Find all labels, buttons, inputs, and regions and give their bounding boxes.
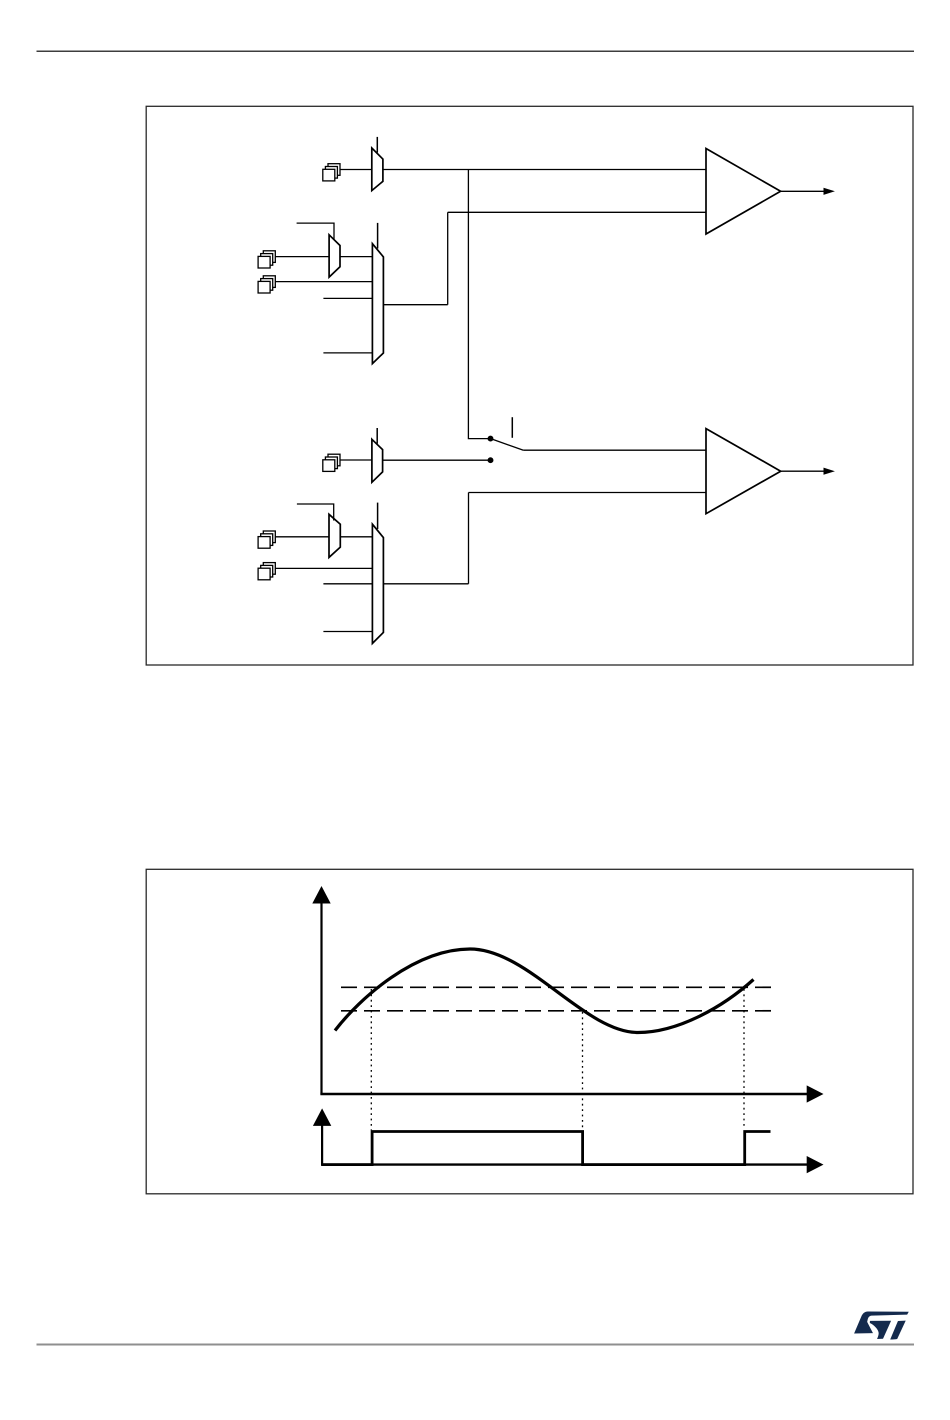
node B (switch top contact dot) bbox=[488, 436, 493, 441]
wire P5 to mux M4a bbox=[275, 536, 329, 538]
wire M1 to comparator COMP1 noninverting input bbox=[383, 169, 706, 171]
wire vertical mux M4 output to COMP2 inverting input bbox=[468, 493, 470, 584]
switch S1 control stub bbox=[511, 417, 513, 438]
dotted guide line 3 bbox=[743, 989, 745, 1129]
wire M2 output bbox=[383, 304, 447, 306]
node C (switch bottom contact dot) bbox=[488, 458, 493, 463]
ST logo bbox=[854, 1311, 909, 1339]
switch S1 blade (window mode) bbox=[492, 439, 523, 450]
header rule bbox=[37, 50, 915, 52]
wire M2 input stub 1 bbox=[323, 297, 372, 299]
I/O pad P2 bbox=[258, 251, 275, 268]
upper graph X axis arrowhead bbox=[807, 1085, 824, 1102]
mux M2 select stub bbox=[377, 223, 379, 249]
wire P3 to mux M2 bbox=[275, 281, 372, 283]
COMP2 output arrowhead bbox=[824, 468, 835, 475]
I/O pad P3 bbox=[258, 276, 275, 293]
figure 2 frame bbox=[146, 869, 913, 1194]
mux M3 select stub bbox=[376, 428, 378, 444]
lower graph Y axis arrowhead bbox=[313, 1108, 331, 1126]
wire P4 to mux M3 bbox=[340, 459, 372, 461]
wire COMP2 output bbox=[781, 470, 825, 472]
mux M2a (small) bbox=[329, 235, 340, 277]
lower graph X axis arrowhead bbox=[807, 1156, 824, 1173]
wire COMP1 output bbox=[781, 190, 825, 192]
wire M4 output bbox=[383, 583, 468, 585]
lower graph Y axis bbox=[321, 1124, 323, 1166]
upper graph Y axis arrowhead bbox=[312, 886, 330, 904]
mux M4a select stub (bent) bbox=[297, 504, 334, 521]
mux M2 (large) bbox=[372, 244, 383, 364]
I/O pad P5 bbox=[258, 531, 275, 548]
upper graph Y axis bbox=[320, 901, 322, 1095]
mux M4 select stub bbox=[377, 503, 379, 529]
lower graph X axis bbox=[321, 1163, 808, 1165]
wire window-mode vertical from node A bbox=[468, 170, 489, 439]
wire M2a to mux M2 bbox=[340, 256, 372, 258]
mux M2a select stub (bent) bbox=[297, 223, 334, 239]
wire COMP2 inverting input bbox=[469, 492, 707, 494]
wire vertical mux M2 output to COMP1 inverting input bbox=[447, 212, 449, 304]
figure 1 frame bbox=[146, 106, 913, 665]
wire P2 to mux M2a bbox=[275, 256, 329, 258]
mux M4a (small) bbox=[329, 514, 340, 557]
wire M3 output to node C bbox=[383, 459, 489, 461]
mux M3 bbox=[372, 439, 383, 482]
footer rule bbox=[37, 1344, 915, 1346]
wire M4 input stub 1 bbox=[323, 583, 372, 585]
I/O pad P1 bbox=[323, 164, 340, 181]
I/O pad P4 bbox=[323, 454, 340, 471]
I/O pad P6 bbox=[258, 563, 275, 580]
upper graph X axis bbox=[320, 1093, 808, 1095]
comparator COMP2 bbox=[706, 429, 781, 514]
analog input curve bbox=[335, 949, 754, 1033]
comparator output square wave bbox=[322, 1132, 771, 1165]
mux M4 (large) bbox=[372, 524, 383, 643]
dashed lower threshold line bbox=[341, 1010, 774, 1012]
dotted guide line 1 bbox=[370, 989, 372, 1130]
wire switch to COMP2 noninverting input bbox=[523, 449, 706, 451]
comparator COMP1 bbox=[706, 149, 781, 235]
wire M4a to mux M4 bbox=[340, 536, 372, 538]
wire COMP1 inverting input bbox=[448, 211, 706, 213]
wire M4 input stub 2 bbox=[323, 631, 372, 633]
dashed upper threshold line bbox=[341, 986, 774, 988]
mux M1 select stub bbox=[376, 137, 378, 153]
wire P1 to mux M1 bbox=[340, 169, 372, 171]
mux M1 bbox=[372, 148, 383, 191]
dotted guide line 2 bbox=[582, 1012, 584, 1130]
wire M2 input stub 2 bbox=[323, 352, 372, 354]
wire P6 to mux M4 bbox=[275, 567, 372, 569]
COMP1 output arrowhead bbox=[824, 188, 835, 195]
